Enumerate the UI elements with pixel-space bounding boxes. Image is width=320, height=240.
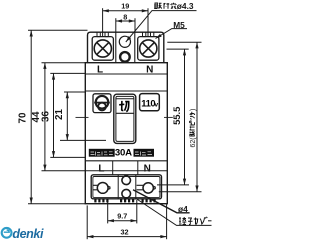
dim 9.7 extension lines: [107, 200, 109, 223]
wire slot 1: [97, 32, 100, 36]
dim 21 extension bottom: [60, 139, 106, 141]
dim 19 line: [103, 10, 148, 12]
left terminal screw: [94, 40, 111, 57]
kanji tori small: [190, 131, 195, 136]
left terminal screw box: [92, 37, 113, 61]
face seam line: [85, 90, 167, 92]
dim 62 extension bottom: [159, 191, 202, 193]
bottom right screw: [143, 183, 153, 193]
lower row bottom line: [85, 170, 167, 172]
katakana long dash: [208, 220, 212, 222]
center mark left: [76, 116, 89, 118]
body outline: [85, 63, 167, 204]
svg-text:70: 70: [17, 112, 28, 123]
svg-text:8: 8: [123, 13, 127, 22]
svg-text:21: 21: [54, 109, 65, 120]
dim 55.5 line: [184, 49, 186, 185]
handle knob top bar: [116, 98, 134, 100]
right terminal screw box: [138, 37, 159, 61]
wire slot 3: [143, 32, 146, 36]
dim 70 extension bottom: [28, 203, 85, 205]
svg-text:9.7: 9.7: [117, 211, 127, 220]
logo box: [93, 94, 111, 113]
handle slot inner: [116, 96, 134, 141]
handle slot outer: [114, 94, 136, 143]
bottom left screw: [97, 183, 108, 194]
text 62 (toritsuke pitch) rotated: [189, 109, 197, 148]
leader M5: [156, 29, 188, 39]
bottom terminal block: [91, 175, 161, 199]
svg-text:denki: denki: [12, 227, 44, 240]
top terminal block: [88, 32, 164, 63]
kanji shi: [188, 218, 193, 225]
dim 44 line: [44, 63, 46, 171]
dim 62 extension top: [167, 41, 201, 43]
compartment wall left: [115, 32, 117, 63]
leader phi4: [133, 190, 190, 213]
L/N row line: [85, 73, 167, 75]
dim 55.5 extension bottom: [157, 184, 189, 186]
katakana ka: [194, 218, 199, 225]
svg-text:19: 19: [121, 1, 129, 10]
dim 36 line: [53, 73, 55, 157]
svg-text:v: v: [154, 101, 158, 108]
leader toritsuke: [126, 11, 197, 42]
kanji ana: [171, 3, 176, 9]
katakana ba: [200, 217, 207, 225]
leader terminal cover: [136, 199, 212, 226]
dim 55.5 extension top: [167, 48, 189, 50]
dim 36 extension top: [50, 72, 85, 74]
dim 44 extension bottom: [42, 170, 86, 172]
lower row divider left: [112, 161, 114, 175]
rating label left black: [89, 149, 115, 157]
dim 36 extension bottom: [50, 156, 85, 158]
svg-text:30A: 30A: [115, 148, 132, 159]
katakana pi: [189, 121, 194, 125]
wire slot 2: [105, 32, 108, 36]
handle character kiri: [119, 101, 129, 112]
kanji tsuke small: [190, 126, 195, 130]
svg-text:L: L: [97, 65, 103, 76]
lower row line: [85, 160, 167, 162]
svg-text:ø4: ø4: [178, 204, 188, 214]
svg-text:55.5: 55.5: [171, 107, 182, 125]
lower row divider right: [137, 161, 139, 175]
dim 32 line: [87, 236, 166, 238]
center mark right: [164, 116, 173, 118]
svg-text:62(: 62(: [190, 137, 197, 148]
svg-text:M5: M5: [173, 20, 185, 30]
dim 8 line: [116, 20, 135, 22]
kanji tan: [179, 217, 186, 225]
text toritsuke-ana o4.3 (hand strokes): [154, 3, 176, 9]
bottom wall right: [135, 175, 137, 199]
kanji tori: [154, 3, 162, 9]
bottom wall left: [117, 175, 119, 199]
katakana chi: [190, 112, 195, 116]
text tanshi cover (hand strokes): [179, 217, 212, 225]
svg-text:36: 36: [41, 111, 52, 122]
dim 19 extension lines: [102, 8, 104, 36]
dim 62 line: [196, 42, 198, 192]
dim 21 line: [66, 92, 68, 140]
handle knob bottom: [116, 112, 134, 114]
watermark e-denki: [2, 227, 44, 240]
110v box: [140, 94, 160, 111]
bottom center hole lower: [122, 189, 131, 198]
svg-text:N: N: [144, 163, 151, 174]
dim 21 extension top: [64, 91, 85, 93]
bottom teeth: [94, 199, 155, 203]
dim 70 line: [30, 30, 32, 203]
svg-text:110: 110: [141, 98, 155, 109]
bottom center hole upper: [122, 176, 131, 185]
dim 9.7 line: [108, 220, 137, 222]
svg-text:ø4.3: ø4.3: [177, 1, 194, 11]
dim 70 extension top: [28, 29, 88, 31]
mounting hole phi4.3: [119, 36, 130, 47]
compartment wall right: [134, 32, 136, 63]
lower bold ring: [120, 52, 130, 62]
rating label right black: [134, 149, 155, 157]
svg-text:): ): [190, 109, 197, 111]
svg-text:N: N: [146, 65, 153, 76]
svg-text:L: L: [98, 163, 104, 174]
katakana small tsu: [190, 116, 195, 120]
kanji tsuke: [164, 3, 169, 9]
svg-text:32: 32: [120, 227, 128, 236]
wire slot 4: [151, 32, 154, 36]
logo mark: [96, 96, 109, 109]
dim 44 extension top: [42, 62, 86, 64]
dim 8 extension lines: [115, 18, 117, 32]
right terminal screw: [140, 40, 157, 57]
dim 32 extension lines: [86, 205, 88, 239]
